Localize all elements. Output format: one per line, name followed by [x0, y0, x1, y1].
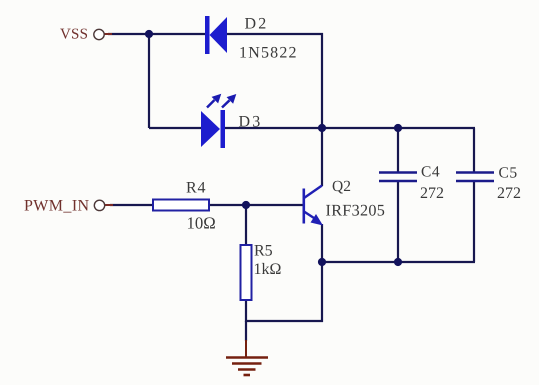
svg-text:PWM_IN: PWM_IN — [24, 198, 90, 215]
svg-text:272: 272 — [497, 185, 521, 202]
svg-text:C4: C4 — [421, 164, 440, 181]
svg-text:1kΩ: 1kΩ — [254, 261, 282, 278]
svg-text:D2: D2 — [245, 16, 269, 33]
svg-text:D3: D3 — [239, 114, 263, 131]
svg-text:10Ω: 10Ω — [187, 214, 216, 233]
svg-text:R4: R4 — [186, 180, 206, 197]
svg-text:272: 272 — [420, 185, 444, 202]
svg-text:R5: R5 — [254, 243, 273, 260]
svg-text:1N5822: 1N5822 — [239, 45, 298, 62]
svg-text:IRF3205: IRF3205 — [326, 202, 386, 220]
svg-text:C5: C5 — [499, 165, 518, 182]
svg-text:Q2: Q2 — [332, 178, 351, 195]
svg-text:VSS: VSS — [60, 27, 88, 43]
